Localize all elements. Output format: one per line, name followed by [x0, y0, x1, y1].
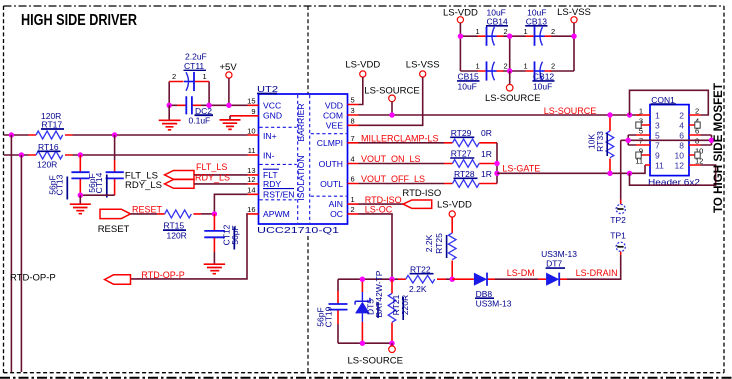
- svg-text:7: 7: [655, 141, 660, 151]
- svg-text:RTD-ISO: RTD-ISO: [365, 195, 402, 205]
- resistor RT29 0R: [444, 139, 497, 147]
- RT27 reference designator: [450, 149, 474, 159]
- svg-text:1: 1: [655, 111, 660, 121]
- svg-text:10uF: 10uF: [458, 82, 477, 92]
- junction cap bank top right: [571, 34, 576, 39]
- RT33 labels 10K RT33: [587, 131, 608, 156]
- svg-text:120R: 120R: [37, 160, 57, 170]
- port FLT_LS: [125, 171, 194, 182]
- svg-text:2: 2: [679, 111, 684, 121]
- svg-text:RT27: RT27: [451, 149, 472, 159]
- svg-text:RESET: RESET: [98, 224, 130, 235]
- wire DB8 to DT7: [495, 278, 538, 280]
- resistor RT27 1R: [444, 160, 497, 168]
- ground at UT2 GND pin: [220, 116, 241, 130]
- port RESET: [98, 209, 131, 235]
- UT2 right pin names: [317, 100, 344, 219]
- svg-text:VEE: VEE: [326, 121, 343, 131]
- connector CON1 Header 6x2: [650, 105, 689, 176]
- CON1 outside pin numbers left: [635, 106, 643, 165]
- svg-text:14: 14: [247, 185, 255, 194]
- svg-text:CT14: CT14: [94, 172, 104, 193]
- no-connect square pin 9: [636, 152, 641, 158]
- wire IN- row: [4, 154, 248, 156]
- test point TP1: [610, 231, 626, 256]
- junction CON1 pin1 rail: [627, 112, 632, 117]
- port RDY_LS: [125, 180, 194, 192]
- svg-text:2: 2: [695, 106, 699, 115]
- capacitor CT19 56pF: [329, 279, 348, 343]
- CON1 left pin stubs: [636, 115, 650, 165]
- RT15 reference designator: [163, 221, 186, 231]
- port RTD-OP-P: [10, 273, 131, 285]
- svg-text:RT17: RT17: [42, 120, 63, 130]
- svg-text:CT19: CT19: [324, 306, 334, 327]
- svg-text:LS-SOURCE: LS-SOURCE: [485, 93, 540, 104]
- capacitor CT14 56pF: [106, 160, 124, 195]
- power +5V: [220, 62, 238, 78]
- wire APWM down to RTD-OP-P: [131, 214, 248, 279]
- ground below CT13: [70, 195, 91, 214]
- svg-text:RT22: RT22: [410, 264, 431, 274]
- capacitor CB13 10uF: [524, 27, 556, 46]
- svg-text:COM: COM: [323, 110, 343, 120]
- svg-text:RDY_LS: RDY_LS: [195, 172, 230, 182]
- CT12 labels CT12 56pF: [222, 224, 240, 249]
- svg-text:RST/EN: RST/EN: [263, 190, 295, 200]
- wire LS-SOURCE stem: [391, 102, 393, 115]
- resistor RT17 120R: [29, 131, 73, 139]
- svg-text:TO HIGH SIDE MOSFET: TO HIGH SIDE MOSFET: [711, 82, 725, 213]
- wire VCC rail: [169, 104, 247, 106]
- svg-text:GND: GND: [263, 111, 282, 121]
- svg-text:IN-: IN-: [263, 150, 275, 160]
- svg-text:RTD-ISO: RTD-ISO: [402, 188, 441, 199]
- svg-text:2.2K: 2.2K: [424, 234, 434, 252]
- svg-text:CB12: CB12: [533, 72, 555, 82]
- svg-text:CB14: CB14: [487, 16, 509, 26]
- svg-text:8: 8: [679, 141, 684, 151]
- RT17 reference designator: [41, 120, 64, 130]
- resistor RT21 220R: [388, 279, 396, 343]
- svg-text:2: 2: [551, 62, 555, 71]
- svg-text:11: 11: [248, 146, 256, 155]
- resistor RT22 2.2K: [398, 275, 446, 283]
- UT2 left pin stubs: [230, 105, 259, 214]
- svg-text:1: 1: [203, 72, 207, 81]
- wire OUTL row: [359, 183, 445, 185]
- junction RT27 tie: [494, 161, 499, 166]
- svg-text:2: 2: [551, 27, 555, 36]
- power LS-VSS cap bank: [557, 7, 591, 23]
- wire CT14 top branch: [114, 135, 116, 160]
- junction RT33 top: [607, 112, 612, 117]
- capacitor CB12 10uF: [524, 61, 556, 80]
- test point TP2: [610, 200, 626, 225]
- svg-text:2: 2: [172, 72, 176, 81]
- UT2 reference designator: [257, 84, 278, 94]
- RT16 reference designator: [38, 142, 61, 152]
- RT29 reference designator: [450, 128, 474, 138]
- capacitor CT12 56pF: [204, 214, 225, 252]
- wire TP2 drop: [620, 140, 622, 199]
- wire OUTH row: [359, 163, 445, 165]
- wire off-page left IN+: [10, 135, 12, 372]
- op-amp/gate-driver UT2 UCC21710-Q1: [259, 94, 348, 224]
- junction cross left: [626, 138, 631, 143]
- wire CON1 cross pins 5-7-6-8: [621, 135, 712, 145]
- svg-text:6: 6: [679, 131, 684, 141]
- RT22 reference designator: [410, 264, 434, 274]
- svg-text:8: 8: [351, 116, 355, 125]
- capacitor DC2 0.1uF: [177, 96, 201, 114]
- wire COM rail LS-SOURCE net: [359, 114, 642, 116]
- svg-text:15: 15: [247, 96, 255, 105]
- junction RT21 bottom: [389, 341, 394, 346]
- svg-text:BAT42W-TP: BAT42W-TP: [374, 270, 384, 317]
- svg-text:0R: 0R: [481, 128, 492, 138]
- CON1 right pin stubs: [689, 115, 701, 165]
- svg-text:1R: 1R: [481, 169, 492, 179]
- DT7 reference designator: [546, 259, 565, 269]
- capacitor CT13 56pF: [71, 155, 89, 195]
- power LS-VDD at RT25: [437, 200, 472, 217]
- svg-text:LS-SOURCE: LS-SOURCE: [348, 356, 403, 367]
- junction CT11 right: [206, 103, 211, 108]
- CB14 reference designator: [486, 16, 508, 26]
- svg-text:12: 12: [247, 175, 255, 184]
- svg-text:6: 6: [351, 175, 355, 184]
- wire FLT row: [194, 174, 248, 176]
- junction LS-SOURCE tap: [389, 112, 394, 117]
- CT13 labels 56pF CT13: [48, 174, 68, 199]
- svg-text:1: 1: [524, 27, 528, 36]
- svg-text:+5V: +5V: [220, 62, 238, 73]
- DB8 reference designator: [475, 289, 494, 299]
- wire RDY row: [194, 183, 248, 185]
- wire cap bank rails: [460, 23, 574, 71]
- svg-text:1R: 1R: [481, 149, 492, 159]
- RT25 labels 2.2K RT25: [424, 233, 447, 258]
- svg-text:12: 12: [675, 161, 685, 171]
- svg-text:RT15: RT15: [164, 221, 185, 231]
- wire IN+ row: [4, 134, 248, 136]
- wire CT11 left branch: [168, 82, 170, 106]
- svg-text:2: 2: [504, 62, 508, 71]
- resistor RT28 1R: [444, 180, 497, 188]
- svg-text:CB15: CB15: [458, 72, 480, 82]
- svg-text:7: 7: [351, 134, 355, 143]
- svg-text:RTD-OP-P: RTD-OP-P: [141, 270, 184, 280]
- svg-text:DT7: DT7: [546, 259, 562, 269]
- capacitor CT11 2.2uF polarized: [169, 72, 209, 91]
- junction CT13 bottom: [78, 193, 83, 198]
- UT2 right pin stubs: [348, 105, 359, 214]
- svg-text:3: 3: [655, 121, 660, 131]
- svg-text:LS-VDD: LS-VDD: [345, 60, 380, 71]
- junction RT22 left: [389, 277, 394, 282]
- resistor RT15 120R: [157, 210, 201, 218]
- svg-text:RT33: RT33: [595, 131, 605, 152]
- junction cap bank top mid: [507, 34, 512, 39]
- svg-text:OC: OC: [330, 209, 343, 219]
- svg-text:120R: 120R: [167, 230, 187, 240]
- wire bottom rail: [338, 342, 392, 344]
- UT2 right pin numbers: [351, 96, 355, 214]
- svg-text:CLMPI: CLMPI: [317, 138, 343, 148]
- svg-text:2: 2: [351, 205, 355, 214]
- svg-text:0.1uF: 0.1uF: [189, 115, 211, 125]
- CB15 reference designator: [457, 72, 480, 82]
- svg-text:RDY: RDY: [263, 179, 281, 189]
- svg-text:HIGH SIDE DRIVER: HIGH SIDE DRIVER: [21, 12, 137, 29]
- svg-text:US3M-13: US3M-13: [476, 299, 512, 309]
- CT11 reference designator: [184, 61, 207, 71]
- svg-text:CB13: CB13: [526, 16, 548, 26]
- wire RESET to RT15: [131, 213, 158, 215]
- svg-text:VOUT_OFF_LS: VOUT_OFF_LS: [361, 174, 425, 184]
- junction IN+ left: [9, 132, 14, 137]
- svg-text:13: 13: [247, 166, 255, 175]
- wire +5V to VCC rail: [228, 78, 230, 105]
- svg-text:RTD-OP-P: RTD-OP-P: [10, 273, 56, 284]
- diode DT7 US3M-13: [538, 273, 567, 286]
- UT2 left pin numbers: [247, 96, 255, 214]
- wire OC down to RT22 node: [359, 214, 393, 279]
- power LS-SOURCE bottom: [348, 343, 403, 366]
- power LS-SOURCE cap bank: [485, 71, 540, 104]
- svg-text:5: 5: [351, 96, 355, 105]
- svg-text:RT25: RT25: [434, 233, 444, 254]
- wire off-page left IN-: [20, 155, 22, 372]
- wire main bottom node row: [338, 278, 452, 280]
- svg-text:TP1: TP1: [610, 231, 626, 241]
- ground below VCC rail left: [159, 105, 181, 130]
- resistor RT25 2.2K: [448, 217, 456, 279]
- svg-text:11: 11: [655, 161, 664, 171]
- svg-text:LS-VSS: LS-VSS: [406, 60, 440, 71]
- power LS-VDD cap bank: [443, 8, 478, 23]
- svg-text:LS-OC: LS-OC: [365, 204, 393, 214]
- svg-text:IN+: IN+: [263, 131, 277, 141]
- svg-text:4: 4: [679, 121, 684, 131]
- junction IN- left: [19, 152, 24, 157]
- junction VCC rail left: [167, 103, 172, 108]
- svg-text:9: 9: [655, 151, 660, 161]
- svg-text:BARRIER: BARRIER: [296, 103, 306, 141]
- wire LS-GATE rail: [497, 165, 646, 173]
- junction LS-GATE wrap: [627, 171, 632, 176]
- svg-text:5: 5: [655, 131, 660, 141]
- svg-text:LS-DM: LS-DM: [507, 268, 535, 278]
- svg-text:3: 3: [351, 106, 355, 115]
- wire CLMPI row: [359, 142, 445, 144]
- CB13 reference designator: [525, 16, 547, 26]
- svg-text:220R: 220R: [400, 295, 410, 315]
- junction cap bank top left: [458, 34, 463, 39]
- junction cross right: [709, 138, 714, 143]
- svg-text:LS-DRAIN: LS-DRAIN: [576, 268, 618, 278]
- diode DB8 US3M-13: [452, 273, 495, 286]
- port RTD-ISO: [402, 188, 441, 208]
- svg-text:CT11: CT11: [184, 61, 204, 71]
- RT28 reference designator: [454, 169, 478, 179]
- CT14 labels 56pF CT14: [87, 172, 107, 197]
- svg-text:ISOLATION: ISOLATION: [296, 155, 306, 200]
- junction RT22 right RT25 bottom: [450, 277, 455, 282]
- wire RT15 to junction: [201, 213, 214, 215]
- svg-text:1: 1: [351, 195, 355, 204]
- svg-text:LS-SOURCE: LS-SOURCE: [544, 106, 597, 116]
- wire CON1 top wrap to pin 2: [630, 90, 709, 115]
- junction cap bank bottom mid: [507, 68, 512, 73]
- svg-text:16: 16: [247, 205, 255, 214]
- wire VEE pin to LS-VSS: [359, 77, 423, 125]
- svg-text:UCC21710-Q1: UCC21710-Q1: [257, 225, 339, 235]
- svg-text:LS-VDD: LS-VDD: [437, 200, 472, 211]
- svg-text:DB8: DB8: [476, 289, 493, 299]
- RT21 labels RT21 220R: [391, 294, 410, 320]
- no-connect square pin 10: [695, 152, 700, 158]
- svg-text:RDY_LS: RDY_LS: [125, 180, 162, 191]
- no-connect square pin 4: [695, 122, 700, 128]
- svg-text:2.2uF: 2.2uF: [185, 51, 207, 61]
- junction DT5 top: [360, 277, 365, 282]
- svg-text:RT29: RT29: [451, 128, 472, 138]
- svg-text:2.2K: 2.2K: [409, 284, 427, 294]
- UT2 left pin names: [263, 101, 295, 220]
- svg-text:FLT_LS: FLT_LS: [196, 162, 227, 172]
- CON1 outside pin numbers right: [695, 106, 703, 165]
- svg-text:CT13: CT13: [55, 174, 65, 195]
- capacitor CB15 10uF: [476, 61, 508, 80]
- svg-text:UT2: UT2: [257, 84, 278, 94]
- svg-text:1: 1: [476, 27, 480, 36]
- DC2 reference designator: [195, 106, 214, 116]
- junction IN- CT13 tap: [78, 152, 83, 157]
- wire AIN to RTD-ISO port: [359, 203, 404, 205]
- wire CT11 right branch: [208, 82, 210, 106]
- wire CON1 bottom wrap pin 12: [630, 165, 716, 185]
- junction LS-GATE takeoff: [494, 171, 499, 176]
- svg-text:4: 4: [351, 155, 355, 164]
- svg-text:LS-GATE: LS-GATE: [502, 164, 540, 174]
- resistor RT16 120R: [29, 151, 73, 159]
- power LS-SOURCE at COM: [364, 86, 419, 102]
- diode DT5 BAT42W-TP schottky: [355, 279, 370, 343]
- DT5 labels DT5 BAT42W-TP: [366, 270, 384, 318]
- resistor RT33 10K: [606, 115, 614, 173]
- svg-text:APWM: APWM: [263, 209, 290, 219]
- svg-text:1: 1: [524, 62, 528, 71]
- svg-text:RT28: RT28: [454, 169, 475, 179]
- svg-text:9: 9: [251, 107, 255, 116]
- svg-text:10: 10: [675, 151, 685, 161]
- wire VDD pin to LS-VDD: [359, 77, 363, 104]
- svg-text:VDD: VDD: [325, 100, 343, 110]
- junction RT33 bottom: [607, 171, 612, 176]
- junction RESET node: [212, 211, 217, 216]
- svg-text:MILLERCLAMP-LS: MILLERCLAMP-LS: [361, 133, 439, 143]
- svg-text:1: 1: [476, 62, 480, 71]
- CON1 reference designator: [651, 95, 676, 105]
- svg-text:56pF: 56pF: [230, 225, 240, 244]
- svg-text:US3M-13: US3M-13: [541, 249, 577, 259]
- power LS-VDD at VDD pin: [345, 60, 380, 78]
- svg-text:10uF: 10uF: [533, 82, 552, 92]
- svg-text:OUTH: OUTH: [319, 159, 343, 169]
- svg-text:VCC: VCC: [263, 101, 281, 111]
- capacitor CB14 10uF: [476, 27, 508, 46]
- svg-text:TP2: TP2: [610, 215, 626, 225]
- ground below CT12: [204, 252, 225, 274]
- power LS-VSS: [406, 60, 440, 78]
- junction DT5 bottom: [360, 341, 365, 346]
- svg-text:2: 2: [504, 27, 508, 36]
- svg-text:1: 1: [639, 106, 643, 115]
- wire LS-DRAIN to TP1: [567, 255, 621, 279]
- wire resistor tie vertical: [496, 143, 498, 184]
- CT19 labels 56pF CT19: [316, 306, 334, 327]
- no-connect square pin 3: [636, 122, 641, 128]
- svg-text:VOUT_ON_LS: VOUT_ON_LS: [361, 154, 421, 164]
- wire CT13 CT14 bottom join: [80, 194, 114, 196]
- wire RST/EN to junction: [214, 194, 247, 214]
- svg-text:OUTL: OUTL: [320, 179, 343, 189]
- CON1 inside pin numbers: [655, 111, 684, 171]
- svg-text:AIN: AIN: [329, 199, 343, 209]
- junction IN+ CT14 tap: [112, 132, 117, 137]
- CB12 reference designator: [532, 72, 554, 82]
- junction +5V tap: [226, 103, 231, 108]
